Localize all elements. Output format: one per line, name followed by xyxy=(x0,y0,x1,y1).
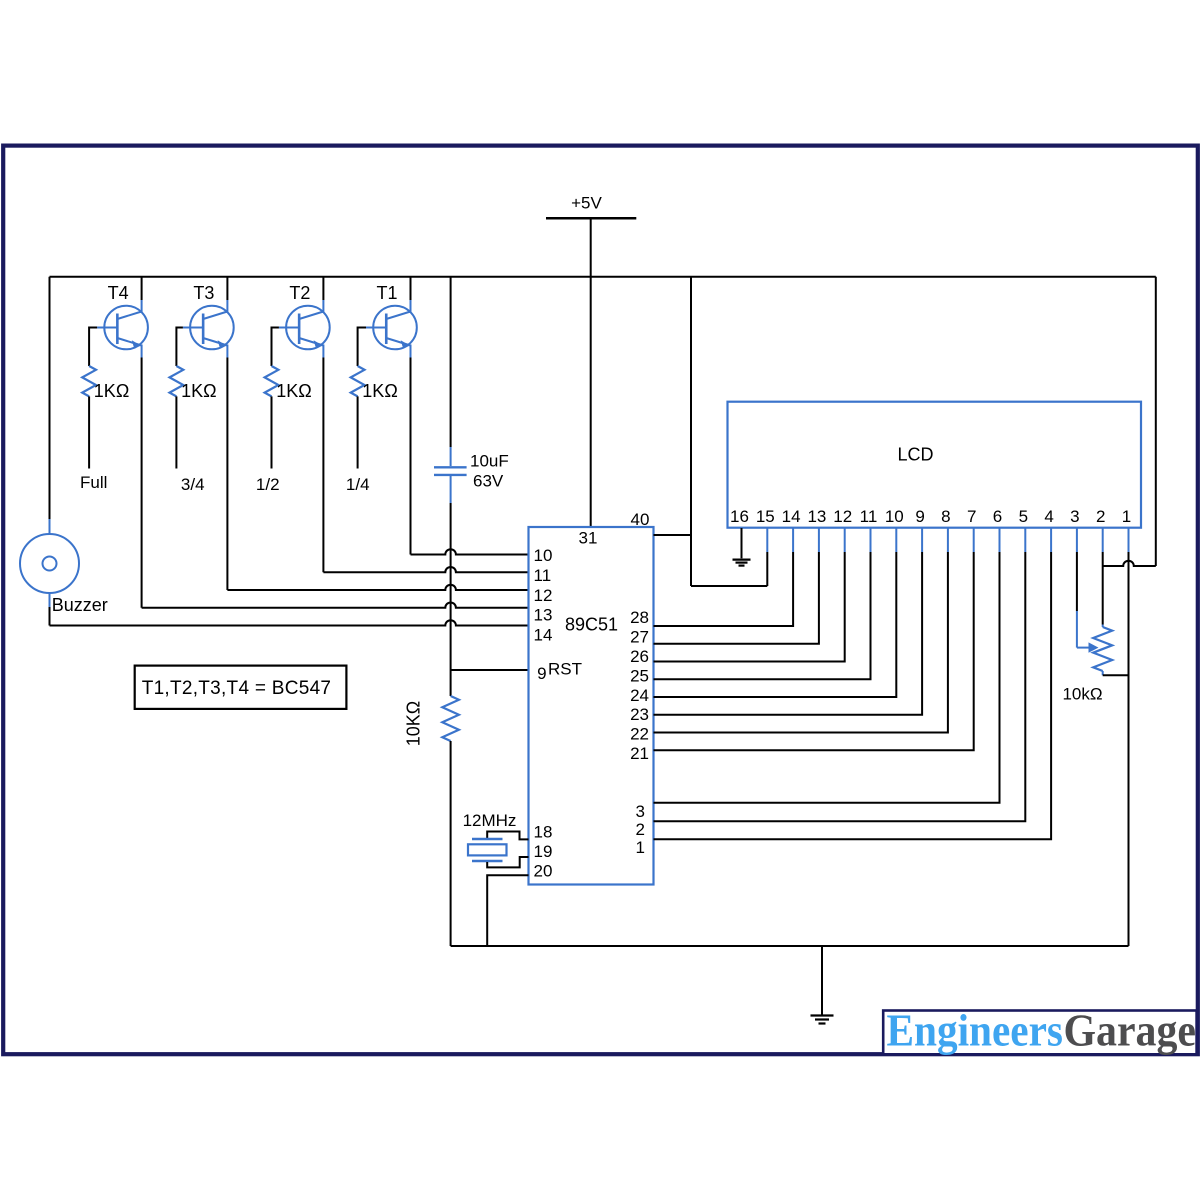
wire +5V top rail xyxy=(50,276,1156,278)
wire LCD pin11 stub xyxy=(870,528,872,552)
svg-text:1KΩ: 1KΩ xyxy=(276,381,311,401)
svg-text:2: 2 xyxy=(1096,507,1105,526)
svg-text:13: 13 xyxy=(807,507,826,526)
svg-text:8: 8 xyxy=(941,507,950,526)
svg-text:T2: T2 xyxy=(289,283,310,303)
wire LCD pin12 stub xyxy=(844,528,846,552)
wire to MCU pin 10 (hop over reset line) xyxy=(411,549,529,554)
svg-text:28: 28 xyxy=(630,608,649,627)
wire LCD pin4 stub xyxy=(1050,528,1052,552)
svg-text:12: 12 xyxy=(833,507,852,526)
resistor 1K&#937; (T1 base) xyxy=(351,366,365,396)
wire LCD pin2 stub xyxy=(1102,528,1104,552)
wire base T1 to resistor xyxy=(358,328,366,367)
wire RST to pin 9 xyxy=(451,669,529,671)
svg-text:T1,T2,T3,T4 = BC547: T1,T2,T3,T4 = BC547 xyxy=(142,678,332,699)
wire resistor to 3/4 probe xyxy=(175,396,177,468)
svg-text:7: 7 xyxy=(967,507,976,526)
svg-text:10: 10 xyxy=(534,546,553,565)
wire pin2 node to +5V drop (hop over pin1 wire) xyxy=(1103,561,1156,566)
svg-text:14: 14 xyxy=(782,507,801,526)
note box T1..T4 = BC547 xyxy=(135,666,347,709)
svg-text:12: 12 xyxy=(534,586,553,605)
svg-text:9: 9 xyxy=(915,507,924,526)
wire LCD pin2 down xyxy=(1102,552,1104,625)
svg-text:21: 21 xyxy=(630,744,649,763)
wire LCD pin9 stub xyxy=(921,528,923,552)
potentiometer 10k&#937; body xyxy=(1093,625,1112,676)
svg-text:12MHz: 12MHz xyxy=(463,811,517,830)
wire pin 40 stub xyxy=(654,534,692,536)
resistor 1K&#937; (T3 base) xyxy=(170,366,184,396)
wire LCD pin14 stub xyxy=(792,528,794,552)
svg-text:11: 11 xyxy=(860,507,878,526)
svg-text:+5V: +5V xyxy=(571,194,602,213)
wire LCD pin8 stub xyxy=(947,528,949,552)
wire base T3 to resistor xyxy=(176,328,183,367)
wire LCD pin15 stub xyxy=(766,528,768,552)
svg-text:20: 20 xyxy=(534,861,553,880)
svg-text:3: 3 xyxy=(636,802,645,821)
svg-text:LCD: LCD xyxy=(897,445,933,465)
op-amp U1 89C51 microcontroller box xyxy=(529,527,654,885)
svg-text:T3: T3 xyxy=(193,283,214,303)
svg-text:40: 40 xyxy=(631,510,650,529)
wire ground stub xyxy=(821,946,823,1015)
wire LCD pin7 to MCU pin 21 xyxy=(654,552,974,750)
svg-text:1/4: 1/4 xyxy=(346,475,370,494)
wire emitter T2 to MCU row xyxy=(322,358,324,573)
wire base T2 to resistor xyxy=(272,328,279,367)
svg-text:Garage: Garage xyxy=(1064,1005,1197,1055)
svg-text:27: 27 xyxy=(630,628,649,647)
buzzer xyxy=(20,519,79,607)
svg-text:19: 19 xyxy=(534,842,553,861)
resistor 1K&#937; (T2 base) xyxy=(265,366,279,396)
wire rail drop to pin40 / LCD pin15 xyxy=(690,277,692,586)
wire LCD pin16 stub xyxy=(741,528,743,558)
svg-text:1KΩ: 1KΩ xyxy=(94,381,129,401)
wire LCD pin10 stub xyxy=(895,528,897,552)
svg-text:31: 31 xyxy=(579,529,598,548)
capacitor C1 10uF 63V xyxy=(434,447,467,503)
wire to LCD pin 15 xyxy=(691,585,767,587)
resistor R5 10K&#937; (reset pulldown) xyxy=(442,696,459,741)
wire +5V to pin 31 xyxy=(590,218,592,527)
resistor 1K&#937; (T4 base) xyxy=(82,366,96,396)
svg-text:9: 9 xyxy=(537,664,546,683)
wire rail right drop to LCD pin2 node xyxy=(1155,277,1157,566)
svg-text:63V: 63V xyxy=(473,472,504,491)
wire collector T3 from rail xyxy=(226,277,228,300)
wire pot bottom to ground line xyxy=(1103,674,1129,676)
LCD module box xyxy=(728,402,1142,528)
wire LCD pin5 stub xyxy=(1024,528,1026,552)
wire LCD pin14 to MCU pin 28 xyxy=(654,552,794,626)
wire resistor to Full probe xyxy=(88,396,90,468)
svg-text:Engineers: Engineers xyxy=(887,1005,1064,1055)
wire to MCU pin 14 (hop over reset line) xyxy=(50,620,529,625)
wire rail left drop to buzzer xyxy=(49,277,51,519)
wire MCU pin19 to crystal xyxy=(487,857,528,867)
svg-text:22: 22 xyxy=(630,725,649,744)
wire rail to capacitor xyxy=(450,277,452,447)
wire to MCU pin 13 (hop over reset line) xyxy=(142,602,529,607)
svg-text:1KΩ: 1KΩ xyxy=(181,381,216,401)
wire ground rail xyxy=(451,945,1129,947)
wire LCD pin1 to ground rail xyxy=(1128,552,1130,946)
wire LCD pin13 to MCU pin 27 xyxy=(654,552,819,644)
wire LCD pin3 to pot wiper xyxy=(1076,552,1078,611)
svg-text:1/2: 1/2 xyxy=(256,475,280,494)
wire LCD pin13 stub xyxy=(818,528,820,552)
svg-text:RST: RST xyxy=(548,660,582,679)
wire LCD pin4 to MCU pin 1 xyxy=(654,552,1052,839)
svg-text:4: 4 xyxy=(1044,507,1053,526)
transistor T1 BC547 xyxy=(366,300,417,358)
svg-text:3: 3 xyxy=(1070,507,1079,526)
svg-text:1KΩ: 1KΩ xyxy=(362,381,397,401)
svg-text:16: 16 xyxy=(730,507,749,526)
wire collector T1 from rail xyxy=(410,277,412,300)
wire buzzer to MCU pin 14 xyxy=(49,607,51,626)
svg-text:25: 25 xyxy=(630,666,649,685)
wire collector T2 from rail xyxy=(322,277,324,300)
border frame xyxy=(3,146,1198,1055)
svg-text:3/4: 3/4 xyxy=(181,475,205,494)
svg-text:10: 10 xyxy=(885,507,904,526)
wire LCD pin1 stub xyxy=(1128,528,1130,552)
svg-text:6: 6 xyxy=(993,507,1002,526)
svg-text:24: 24 xyxy=(630,686,649,705)
ground (LCD pin 16) xyxy=(733,560,751,566)
wire LCD pin7 stub xyxy=(973,528,975,552)
wire LCD pin8 to MCU pin 22 xyxy=(654,552,948,733)
svg-text:89C51: 89C51 xyxy=(565,615,618,635)
EngineersGarage logo xyxy=(883,1005,1196,1055)
wire LCD pin5 to MCU pin 2 xyxy=(654,552,1026,821)
potentiometer 10k&#937; wiper xyxy=(1077,611,1099,653)
svg-text:2: 2 xyxy=(636,820,645,839)
wire base T4 to resistor xyxy=(89,328,97,367)
svg-text:14: 14 xyxy=(534,625,553,644)
wire MCU pin18 to crystal xyxy=(487,832,528,840)
wire resistor to 1/4 probe xyxy=(357,396,359,468)
wire LCD pin11 to MCU pin 25 xyxy=(654,552,871,679)
svg-text:23: 23 xyxy=(630,705,649,724)
wire emitter T4 to MCU row xyxy=(141,358,143,608)
transistor T4 BC547 xyxy=(97,300,148,358)
ground (main) xyxy=(811,1016,834,1024)
svg-text:26: 26 xyxy=(630,647,649,666)
+5V supply symbol xyxy=(546,194,636,219)
wire LCD pin6 to MCU pin 3 xyxy=(654,552,1000,803)
svg-text:Full: Full xyxy=(80,473,107,492)
svg-text:18: 18 xyxy=(534,822,553,841)
wire LCD pin12 to MCU pin 26 xyxy=(654,552,845,662)
svg-text:T4: T4 xyxy=(108,283,129,303)
wire LCD pin15 down xyxy=(766,552,768,586)
wire to MCU pin 11 (hop over reset line) xyxy=(323,567,528,572)
svg-text:5: 5 xyxy=(1019,507,1028,526)
svg-text:T1: T1 xyxy=(376,283,397,303)
svg-text:Buzzer: Buzzer xyxy=(52,595,108,615)
crystal X1 12MHz xyxy=(468,839,507,861)
svg-text:11: 11 xyxy=(534,566,552,585)
svg-text:15: 15 xyxy=(756,507,775,526)
wire resistor to 1/2 probe xyxy=(271,396,273,468)
svg-text:1: 1 xyxy=(636,838,645,857)
svg-text:13: 13 xyxy=(534,606,553,625)
wire capacitor to RST node xyxy=(450,503,452,696)
wire resistor to ground rail xyxy=(450,741,452,946)
wire LCD pin6 stub xyxy=(999,528,1001,552)
svg-text:1: 1 xyxy=(1122,507,1131,526)
transistor T3 BC547 xyxy=(183,300,234,358)
wire collector T4 from rail xyxy=(141,277,143,300)
svg-text:10KΩ: 10KΩ xyxy=(403,701,423,746)
wire LCD pin3 stub xyxy=(1076,528,1078,552)
wire emitter T3 to MCU row xyxy=(226,358,228,591)
svg-text:10kΩ: 10kΩ xyxy=(1062,685,1102,704)
wire MCU pin20 to ground rail xyxy=(487,875,528,946)
wire emitter T1 to MCU row xyxy=(410,358,412,555)
transistor T2 BC547 xyxy=(279,300,330,358)
wire LCD pin9 to MCU pin 23 xyxy=(654,552,923,715)
wire to MCU pin 12 (hop over reset line) xyxy=(227,585,528,590)
wire LCD pin10 to MCU pin 24 xyxy=(654,552,897,697)
svg-text:10uF: 10uF xyxy=(470,452,509,471)
